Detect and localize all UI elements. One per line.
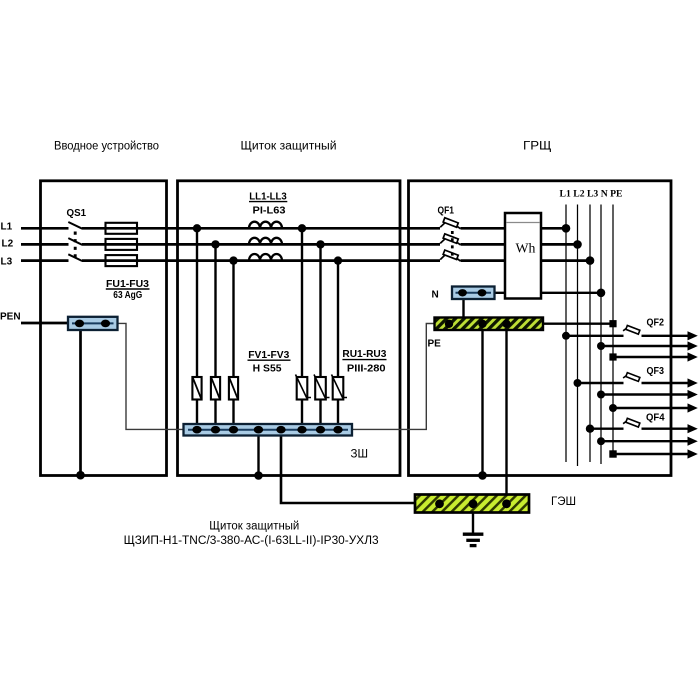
svg-text:Wh: Wh	[516, 241, 536, 256]
disconnector QS1 pole 3 lever	[68, 254, 82, 261]
QF2 feeder PE wire with arrow	[613, 352, 698, 361]
junction QF4 phase tap	[586, 425, 594, 433]
junction N riser top	[597, 289, 606, 298]
junction QF3 N tap	[597, 391, 605, 399]
QF4 feeder PE wire with arrow	[613, 449, 698, 458]
QF2 feeder N wire with arrow	[601, 341, 698, 350]
varistor RU2	[314, 375, 330, 400]
wire PE bus down to box bottom	[481, 330, 483, 476]
inductor LL1 coil	[249, 222, 282, 229]
fuse FU2	[106, 239, 138, 250]
QF3 feeder N wire with arrow	[601, 390, 698, 399]
fuse FU1	[106, 223, 138, 234]
label N bus	[432, 290, 439, 301]
QF4 feeder N wire with arrow	[601, 437, 698, 446]
junction PE riser top (square)	[609, 320, 616, 327]
svg-text:QF2: QF2	[647, 317, 665, 328]
disconnector QS1 pole 1 lever	[68, 222, 82, 229]
fuse FU3	[106, 255, 138, 266]
wire L3 phase from input to QS1	[21, 259, 69, 262]
svg-text:QF3: QF3	[647, 366, 665, 377]
arrester FV2	[211, 377, 220, 400]
junction QF2 N tap	[597, 342, 605, 350]
label QF2	[647, 317, 665, 328]
QF2 feeder phase wire with arrow	[566, 331, 698, 340]
net label L2	[2, 239, 14, 250]
junction L2 riser top	[573, 240, 582, 249]
energy meter Wh	[505, 213, 541, 299]
junction QF2 phase tap	[562, 332, 570, 340]
wire L3 from QS1 through FU3 to QF1	[82, 259, 440, 262]
N bus dots	[458, 289, 486, 296]
label FU1-FU3 with underline	[106, 279, 150, 290]
QF4 feeder phase wire with arrow	[590, 424, 698, 433]
ГЭШ main earthing bus bar	[415, 495, 529, 513]
N bus bar	[452, 287, 495, 300]
svg-text:QF1: QF1	[438, 205, 455, 216]
circuit breaker QF3	[623, 373, 640, 382]
svg-text:Щиток защитный: Щиток защитный	[241, 140, 337, 152]
header label Щиток защитный	[241, 140, 337, 152]
QF1 interpole dashed linkage	[451, 231, 454, 258]
circuit breaker QF2	[623, 325, 640, 334]
label LL1-LL3 with underline	[249, 191, 287, 202]
wire L1 phase from input to QS1	[21, 227, 69, 230]
svg-text:L3: L3	[1, 256, 13, 267]
wire PEN bus to 3Ш bus (thin link)	[118, 323, 184, 429]
caption line 2 type designation	[124, 535, 379, 547]
wire L1 from QF1 to L1 riser	[461, 227, 567, 230]
label ГЭШ	[551, 496, 576, 508]
junction L3 right tap	[334, 256, 342, 264]
riser line L1	[565, 205, 567, 463]
svg-text:PE: PE	[428, 339, 442, 350]
label QS1	[67, 208, 87, 219]
svg-text:FU1-FU3: FU1-FU3	[106, 279, 149, 290]
wire 3Ш bus down and right to ГЭШ bus	[281, 436, 415, 504]
enclosure box: Вводное устройство	[41, 181, 167, 476]
riser line L3	[589, 205, 591, 463]
ground symbol	[463, 513, 484, 546]
header label Вводное устройство	[54, 140, 159, 152]
enclosure box: ГРЩ	[409, 181, 672, 476]
wire L2 phase from input to QS1	[21, 243, 69, 246]
value label HS55	[253, 363, 282, 374]
QS1 interpole dashed linkage	[74, 232, 77, 259]
value label PI-L63	[253, 205, 286, 216]
arrester FV3	[229, 377, 238, 400]
net label L1	[1, 221, 13, 232]
svg-text:ЩЗИП-Н1-TNC/3-380-АС-(I-63LL-I: ЩЗИП-Н1-TNC/3-380-АС-(I-63LL-II)-IP30-УХ…	[124, 535, 379, 547]
junction L1 left tap	[193, 224, 201, 232]
wire L2 from QS1 through FU2 to QF1	[82, 243, 440, 246]
svg-text:L1 L2 L3 N PE: L1 L2 L3 N PE	[560, 189, 623, 199]
wire PE bus down to ГЭШ bus	[505, 330, 507, 495]
label FV1-FV3 with underline	[248, 350, 291, 361]
junction QF4 PE tap (square)	[609, 450, 616, 457]
junction L2 right tap	[316, 240, 324, 248]
svg-text:63 AgG: 63 AgG	[113, 290, 142, 301]
wire FV3 tap L3 down to 3Ш bus	[232, 261, 234, 425]
value label 63 AgG	[113, 290, 142, 301]
svg-text:ЗШ: ЗШ	[351, 449, 369, 461]
label ЗШ	[351, 449, 369, 461]
PEN bus bar	[68, 317, 118, 330]
circuit breaker QF1 pole 3	[440, 250, 460, 261]
wire FV1 tap L1 down to 3Ш bus	[196, 228, 198, 424]
svg-text:PEN: PEN	[0, 312, 21, 323]
wire PE bus to PE riser	[543, 323, 610, 325]
circuit breaker QF1 pole 1	[440, 218, 460, 229]
wire PEN input to PEN bus	[21, 322, 68, 325]
PE bus bar	[435, 318, 544, 331]
enclosure box: Щиток защитный	[178, 181, 401, 476]
3Ш bus dots	[192, 426, 342, 434]
wire L2 from QF1 to L2 riser	[461, 243, 578, 246]
wire 3Ш bus to PE bus (thin link)	[352, 324, 435, 430]
junction L2 left tap	[211, 240, 219, 248]
svg-text:Вводное устройство: Вводное устройство	[54, 140, 159, 152]
wire RU2 tap L2 down to 3Ш bus	[319, 244, 321, 424]
junction L1 riser top	[562, 224, 571, 233]
svg-text:Щиток защитный: Щиток защитный	[209, 521, 299, 533]
riser header L1 L2 L3 N PE	[560, 189, 623, 199]
svg-text:L1: L1	[1, 221, 13, 232]
svg-text:ГЭШ: ГЭШ	[551, 496, 576, 508]
svg-text:N: N	[432, 290, 439, 301]
svg-text:L2: L2	[2, 239, 14, 250]
riser line PE	[612, 205, 614, 456]
QF3 feeder PE wire with arrow	[613, 403, 698, 412]
svg-text:ГРЩ: ГРЩ	[523, 140, 552, 152]
svg-text:QF4: QF4	[646, 413, 665, 424]
caption line 1 Щиток защитный	[209, 521, 299, 533]
inductor LL3 coil	[249, 254, 282, 261]
header label ГРЩ	[523, 140, 552, 152]
riser line N	[600, 205, 602, 465]
svg-text:H S55: H S55	[253, 363, 282, 374]
wire FV2 tap L2 down to 3Ш bus	[214, 244, 216, 424]
junction PEN at box1 bottom	[76, 471, 85, 480]
wire RU3 tap L3 down to 3Ш bus	[337, 261, 339, 425]
svg-text:FV1-FV3: FV1-FV3	[248, 350, 289, 361]
3Ш protective bus bar	[184, 424, 353, 436]
value label PIII-280	[347, 363, 386, 374]
svg-text:LL1-LL3: LL1-LL3	[249, 191, 287, 202]
label QF4	[646, 413, 665, 424]
junction QF4 N tap	[597, 437, 605, 445]
circuit breaker QF4	[623, 418, 640, 427]
junction PE at box3 bottom	[478, 471, 487, 480]
junction QF3 PE tap	[609, 404, 617, 412]
wire 3Ш bus down to box bottom	[257, 436, 259, 476]
QF3 feeder phase wire with arrow	[578, 378, 698, 387]
svg-text:QS1: QS1	[67, 208, 87, 219]
junction L3 riser top	[586, 256, 595, 265]
svg-text:RU1-RU3: RU1-RU3	[342, 349, 386, 360]
svg-text:PI-L63: PI-L63	[253, 205, 286, 216]
wire RU1 tap L1 down to 3Ш bus	[301, 228, 303, 424]
wire PEN bus down to box bottom	[79, 330, 82, 475]
wire N bus down to PE bus	[462, 299, 464, 318]
junction QF2 PE tap (square)	[609, 353, 616, 360]
wire L3 from QF1 to L3 riser	[461, 259, 591, 262]
wire L1 from QS1 through FU1 to QF1	[82, 227, 440, 230]
disconnector QS1 pole 2 lever	[68, 238, 82, 245]
wire N bus to N riser through Wh	[495, 292, 602, 294]
inductor LL2 coil	[249, 238, 282, 245]
junction L1 right tap	[298, 224, 306, 232]
arrester FV1	[192, 377, 201, 400]
label QF3	[647, 366, 665, 377]
PE bus dots	[445, 320, 511, 328]
varistor RU1	[296, 375, 312, 400]
svg-text:PIII-280: PIII-280	[347, 363, 386, 374]
net label PEN	[0, 312, 21, 323]
varistor RU3	[332, 375, 348, 400]
PEN bus dots	[75, 320, 110, 328]
ГЭШ bus dots	[435, 499, 511, 508]
label QF1	[438, 205, 455, 216]
label RU1-RU3 with underline	[342, 349, 386, 360]
junction 3Ш at box2 bottom	[254, 471, 263, 480]
riser line L2	[577, 205, 579, 467]
junction QF3 phase tap	[574, 379, 582, 387]
net label L3	[1, 256, 13, 267]
circuit breaker QF1 pole 2	[440, 234, 460, 245]
junction L3 left tap	[229, 256, 237, 264]
label PE bus	[428, 339, 442, 350]
